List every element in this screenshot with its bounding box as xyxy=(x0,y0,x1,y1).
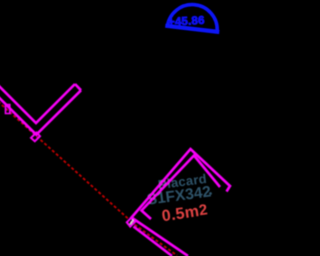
placard left corner stub cap xyxy=(127,218,135,227)
level marker dome arc xyxy=(167,5,217,31)
wall V right arm end cap xyxy=(75,84,81,90)
level marker chord line xyxy=(165,26,219,32)
placard wall outer line (hook, right end, apex, left corner, exit bottom) xyxy=(132,149,231,256)
red axis dashed line NW segment xyxy=(0,102,129,220)
wall V top-left : outer line xyxy=(0,90,81,134)
wall V top-left : inner line xyxy=(0,84,75,123)
svg-text:+45.86: +45.86 xyxy=(168,15,205,29)
wall V vertex stub cap xyxy=(31,133,40,142)
red axis dashed line SE segment xyxy=(131,222,178,256)
placard wall inner line xyxy=(142,156,221,220)
white tick at placard corner xyxy=(130,220,133,224)
door jamb on left arm xyxy=(6,105,10,114)
placard lower wall lower line xyxy=(134,227,173,256)
dot after S1FX342 xyxy=(209,192,212,195)
